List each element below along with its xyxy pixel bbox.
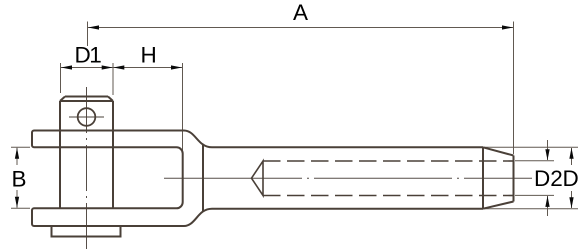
extension line D1/H shared [112,63,114,95]
extension line A right (end face) [513,22,515,155]
taper start edge [482,147,484,208]
leader tail D2 top arrow [547,140,549,160]
arrow D1 left [61,65,72,69]
dimension line A [88,27,514,29]
pin retaining plate [52,226,121,237]
top prong outline [32,131,212,148]
extension line H right [182,63,184,152]
taper bottom edge [483,202,514,209]
slot end radius + face [177,147,183,208]
svg-text:B: B [12,166,27,191]
leader tail D bottom arrow [571,191,573,208]
extension line D1 left [60,63,62,93]
leader tail D top arrow [571,148,573,165]
bore bottom hidden line [263,195,513,197]
arrow A left [88,25,99,29]
end face edge [513,156,515,202]
arrow D2 bottom (up) [545,196,549,207]
arrow B up [15,148,19,159]
taper top edge [483,147,514,155]
pin left edge [59,101,61,208]
pin hole crosshair horizontal [69,116,104,118]
centerline horizontal (part axis) [164,177,532,179]
tube top outline [212,146,483,148]
svg-text:A: A [293,0,308,25]
leader tail D2 bottom arrow [547,196,549,216]
extension line D2 top [515,160,554,162]
dimension line D1 [61,67,114,69]
pin head chamfer left [60,97,65,102]
extension line D2 bottom [515,194,554,196]
shoulder face edge [202,144,204,211]
pin head shoulder line [60,100,113,102]
pin head chamfer right [108,97,113,102]
arrow B down [15,197,19,208]
pin hole circle [78,108,96,126]
bottom prong outline [32,208,212,226]
arrow D1 right [102,65,113,69]
arrow H left [113,65,124,69]
bore top hidden line [263,160,513,162]
svg-text:D1: D1 [75,43,102,68]
bore cone apex [252,161,264,196]
arrow D2 top (down) [545,149,549,160]
arrow D bottom (down) [569,197,573,208]
extension line D bottom [484,208,578,210]
extension line A left (pin centre) [87,22,89,47]
svg-text:D: D [563,166,579,191]
extension line D top (tube OD continued) [484,146,578,148]
arrow D top (up) [569,148,573,159]
dimension line B upper part [16,148,18,165]
arrow H right [171,65,182,69]
tube bottom outline [212,208,483,210]
arrow A right [502,25,513,29]
extension line B bottom [11,207,30,209]
svg-text:D2: D2 [534,166,563,191]
dimension line H [113,67,183,69]
dimension line B lower part [16,190,18,208]
centerline vertical (pin axis) [86,85,88,249]
pin right edge [112,101,114,208]
svg-text:H: H [141,43,157,68]
extension line B top [11,146,30,148]
pin head top [65,96,108,98]
